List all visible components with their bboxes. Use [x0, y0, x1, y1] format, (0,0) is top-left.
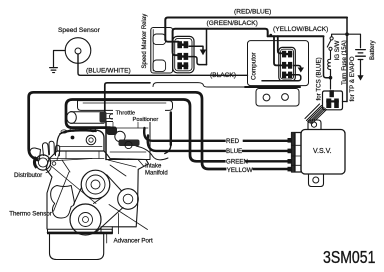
- svg-text:(BLUE/WHITE): (BLUE/WHITE): [86, 68, 131, 75]
- svg-text:Manifold: Manifold: [145, 171, 168, 177]
- svg-text:Intake: Intake: [145, 163, 162, 169]
- svg-text:Throttle: Throttle: [116, 111, 136, 117]
- svg-text:for TP & EVAPO: for TP & EVAPO: [349, 56, 356, 101]
- svg-text:(RED/BLUE): (RED/BLUE): [234, 9, 271, 16]
- svg-text:Computor: Computor: [251, 52, 258, 80]
- svg-text:(BLACK): (BLACK): [210, 72, 236, 79]
- svg-text:Positioner: Positioner: [133, 117, 159, 123]
- svg-text:V.S.V.: V.S.V.: [313, 148, 332, 155]
- svg-text:Battery: Battery: [369, 39, 376, 60]
- svg-text:for TCS (BLUE): for TCS (BLUE): [316, 57, 323, 100]
- svg-text:(GREEN/BLACK): (GREEN/BLACK): [207, 20, 258, 27]
- svg-text:Speed Marker Relay: Speed Marker Relay: [142, 14, 148, 69]
- svg-text:Thermo Sensor: Thermo Sensor: [9, 211, 52, 218]
- svg-text:Turn Fuse (15A): Turn Fuse (15A): [341, 40, 348, 85]
- svg-text:Advancer Port: Advancer Port: [114, 237, 153, 244]
- svg-text:RED: RED: [226, 138, 240, 145]
- svg-text:IG S/W: IG S/W: [334, 40, 341, 60]
- svg-text:Speed Sensor: Speed Sensor: [58, 27, 101, 34]
- svg-text:(YELLOW/BLACK): (YELLOW/BLACK): [273, 26, 328, 33]
- svg-text:GREEN: GREEN: [226, 159, 248, 166]
- svg-text:Distributor: Distributor: [14, 172, 42, 179]
- svg-text:BLUE: BLUE: [226, 148, 242, 155]
- svg-text:YELLOW: YELLOW: [227, 167, 253, 174]
- svg-text:3SM051: 3SM051: [323, 249, 376, 268]
